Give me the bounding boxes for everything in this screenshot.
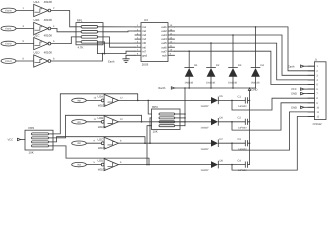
wire cap to gnd bus [248,99,250,101]
wire RP3 output to common [180,113,185,115]
connector oval ECH0 [1,8,16,13]
diode D8 1N4007 [211,161,218,168]
U3 pin 9 sub [168,54,175,56]
U3 pin 11 out6 [168,46,175,48]
svg-text:U2A: U2A [98,95,104,99]
svg-text:ECH0: ECH0 [5,10,12,13]
svg-text:C3: C3 [238,138,242,141]
wire diode to cap C1 [218,99,245,101]
U3 pin 16 out1 [168,26,175,28]
svg-text:1N4148: 1N4148 [184,82,193,85]
wire U1A output to RP1 r1 [51,11,76,27]
wire gnd bus of caps [249,91,251,165]
diode D6 1N4007 [211,118,218,125]
capacitor C3 1uF/63V [244,141,246,146]
svg-text:2003: 2003 [142,62,149,66]
IC U3 ULN2003 [141,23,168,62]
wire U2A output to diode [118,99,211,101]
svg-text:U2D: U2D [98,159,104,163]
svg-text:1N4148: 1N4148 [251,82,260,85]
svg-text:10K: 10K [29,150,34,154]
wire RP2 r4 to bus 4 [53,146,149,165]
J1 pin 1 [308,65,314,67]
U3 pin 2 in2 [135,30,141,32]
wire U2B output to diode [118,121,211,123]
connector oval ECH1 [1,26,16,31]
svg-text:RP3: RP3 [152,105,158,109]
svg-text:U1D: U1D [34,51,41,55]
svg-text:1N4148: 1N4148 [206,82,215,85]
diode D1 1N4148 [188,51,190,67]
inverter U2A 40106 [101,99,104,102]
wire RP2 r3 to bus 3 [53,137,145,144]
J1 pin 4 [308,79,314,81]
connector oval IN3 [72,162,87,166]
svg-text:U2C: U2C [98,137,104,141]
J1 pin 9 [308,102,314,104]
svg-text:1uF/63V: 1uF/63V [238,169,247,172]
U3 pin 3 in3 [135,34,141,36]
U3 pin 10 out7 [168,50,175,52]
resistor pack RP1 4.7K [76,23,103,45]
wire cap to gnd bus [248,121,250,123]
svg-text:CON12: CON12 [313,123,322,126]
svg-text:D6: D6 [220,117,224,120]
svg-text:D3: D3 [238,64,242,67]
svg-text:1N4007: 1N4007 [201,169,210,172]
diode D4 1N4148 [255,27,257,68]
wire RP3 output to common [180,121,185,123]
J1 pin 3 [308,74,314,76]
svg-text:ECH3: ECH3 [5,60,12,63]
J1 pin 11 [308,111,314,113]
wire IN0 to U2A input [86,99,101,101]
svg-text:4.7K: 4.7K [78,45,84,49]
svg-text:40106: 40106 [44,18,53,22]
resistor pack RP2 10K [25,130,53,150]
svg-text:40106: 40106 [44,0,53,4]
svg-text:RP2: RP2 [29,126,35,130]
wire out7 to J1 pin 5 [175,51,315,84]
svg-text:D2: D2 [216,64,220,67]
wire ECH3 to U1D input [16,60,34,62]
wire ECH1 to U1B input [16,28,34,30]
svg-text:40106: 40106 [98,103,106,107]
U3 pin 6 in6 [135,46,141,48]
wire RP1 r3 to U3 in6 [103,37,135,47]
U3 pin 8 gnd [135,54,141,56]
svg-text:D7: D7 [220,138,224,141]
svg-text:40106: 40106 [98,125,106,129]
svg-text:10K: 10K [153,130,158,134]
svg-text:GND: GND [291,106,297,109]
svg-text:C2: C2 [238,117,242,120]
svg-text:1N4007: 1N4007 [201,148,210,151]
svg-text:U2B: U2B [98,116,104,120]
svg-text:D5: D5 [220,95,224,98]
wire RP3 common to gnd bus [184,88,186,126]
svg-text:Earth: Earth [108,61,115,64]
wire RP3 output to common [180,125,185,127]
node A wire to U3 in7 [97,51,135,53]
inverter U2B 40106 [101,120,104,123]
wire out5 to J1 pin 4 [175,43,315,80]
wire row 3 to RP3 r2 [150,118,152,143]
U3 pin 14 out3 [168,34,175,36]
connector J1 CON12 [314,62,326,120]
inverter U2C 40106 [101,142,104,145]
wire row 3 branch to J1 [232,112,314,150]
J1 pin 10 [308,106,314,108]
wire IN1 to U2B input [86,121,101,123]
svg-text:Earth: Earth [288,65,295,68]
diode D7 1N4007 [211,140,218,147]
diode D3 1N4148 [232,35,234,68]
svg-text:C1: C1 [238,95,242,98]
svg-text:VCC: VCC [8,139,14,142]
wire U1B output to RP1 r2 [51,29,76,32]
svg-text:U3: U3 [144,18,148,22]
inverter U1B 40106 [34,22,48,34]
svg-text:1N4148: 1N4148 [228,82,237,85]
inverter U1A 40106 [34,4,48,16]
U3 pin 13 out4 [168,38,175,40]
J1 pin 5 [308,84,314,86]
capacitor C1 1uF/63V [244,98,246,103]
wire U1D output to node A [51,54,103,61]
resistor pack RP3 10K [152,109,181,130]
J1 pin 6 [308,88,314,90]
svg-text:40106: 40106 [98,168,106,172]
wire RP1 r2 to U3 in2 [103,30,135,33]
U3 pin 12 out5 [168,42,175,44]
J1 pin 7 [308,93,314,95]
svg-text:1N4007: 1N4007 [201,105,210,108]
U3 pin 15 out2 [168,30,175,32]
diode D5 1N4007 [211,97,218,104]
svg-text:ECH2: ECH2 [5,43,12,46]
svg-text:D1: D1 [194,64,198,67]
wire cap to gnd bus [248,142,250,144]
wire RP2 r1 to bus 1 [53,94,138,134]
svg-text:1uF/63V: 1uF/63V [238,105,247,108]
wire row 2 branch to J1 [232,103,314,130]
wire diode to cap C4 [218,164,245,166]
inverter U1C 40106 [34,38,48,50]
wire row 1 branch to J1 [232,98,314,110]
J1 pin 8 [308,97,314,99]
wire diode to cap C2 [218,121,245,123]
U3 pin 1 in1 [135,26,141,28]
ground symbol Earth at U3 gnd [126,55,135,59]
svg-text:D8: D8 [220,159,224,162]
svg-text:40106: 40106 [44,51,53,55]
svg-text:U1B: U1B [34,18,40,22]
wire cap to gnd bus [248,164,250,166]
U3 pin 7 in7 [135,50,141,52]
wire RP1 r4 to node A [103,42,105,54]
svg-text:GND: GND [252,88,258,91]
svg-text:40106: 40106 [44,33,53,37]
wire U2D output to diode [118,164,211,166]
svg-text:D4: D4 [261,64,265,67]
svg-text:U1C: U1C [34,33,41,37]
wire U3 in5 to node A [97,43,135,54]
capacitor C2 1uF/63V [244,119,246,124]
connector oval ECH2 [1,41,16,46]
wire row 4 branch to J1 [232,117,314,171]
wire ECH0 to U1A input [16,10,34,12]
connector oval IN1 [72,120,87,124]
J1 pin 2 [308,70,314,72]
svg-text:C4: C4 [238,160,242,163]
capacitor C4 1uF/63V [244,162,246,167]
wire U2C output to diode [118,142,211,144]
wire row 1 to RP3 r1 [148,100,151,114]
inverter U1D 40106 [34,55,48,67]
wire gnd bus [174,87,255,89]
wire ECH2 to U1C input [16,43,34,45]
connector oval IN2 [72,141,87,145]
connector oval ECH3 [1,59,16,64]
diode D2 1N4148 [210,43,212,67]
wire diode to cap C3 [218,142,245,144]
svg-text:U1A: U1A [34,0,40,4]
svg-text:Earth: Earth [159,86,166,90]
U3 pin 5 in5 [135,42,141,44]
wire U1C output to RP1 r3 [51,37,76,44]
net flag GND on caps bus [248,88,250,91]
svg-text:1N4007: 1N4007 [201,126,210,129]
wire row 4 to RP3 r4 [147,126,152,165]
inverter U2D 40106 [101,163,104,166]
J1 pin 12 [308,116,314,118]
svg-text:1uF/63V: 1uF/63V [238,126,247,129]
svg-text:sub: sub [162,53,167,57]
wire out3 to J1 pin 3 [175,35,315,75]
wire IN3 to U2D input [86,164,101,166]
U3 pin 4 in4 [135,38,141,40]
wire out1 to J1 pin 2 [175,27,315,71]
wire IN2 to U2C input [86,142,101,144]
connector oval IN0 [72,98,87,102]
svg-text:GND: GND [291,93,297,96]
svg-text:ECH1: ECH1 [5,28,12,31]
wire RP1 r1 to U3 in1 [103,26,135,28]
wire RP2 r2 to bus 2 [53,115,142,138]
svg-text:40106: 40106 [98,146,106,150]
svg-text:RP1: RP1 [77,18,83,22]
svg-text:gnd: gnd [142,53,147,57]
wire RP3 output to common [180,117,185,119]
svg-text:VCC: VCC [291,88,297,91]
